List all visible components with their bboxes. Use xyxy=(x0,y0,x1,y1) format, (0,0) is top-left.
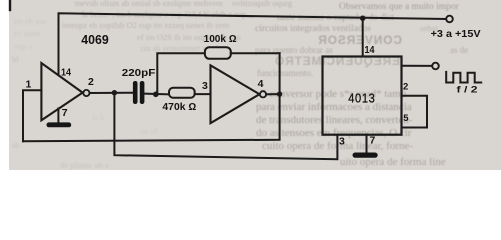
svg-text:funcionamento.: funcionamento. xyxy=(257,68,313,78)
svg-text:mevub olism ab omial sb ezolqm: mevub olism ab omial sb ezolqme mehvem xyxy=(75,0,223,8)
inverter 2 output bubble xyxy=(260,91,266,97)
svg-text:4013: 4013 xyxy=(348,91,375,106)
waveform icon: square wave f/2 xyxy=(446,72,481,83)
terminal +V: open circle xyxy=(446,16,453,23)
wire: inverter1 pin 7 to ground xyxy=(57,109,59,123)
terminal f/2: open circle xyxy=(432,63,439,70)
svg-text:7: 7 xyxy=(62,107,68,119)
svg-text:220pF: 220pF xyxy=(122,68,156,79)
node: junction inv2 output / feedback xyxy=(277,91,282,96)
svg-text:+3 a +15V: +3 a +15V xyxy=(431,28,481,40)
capacitor C1: 220pF plates xyxy=(133,81,145,104)
svg-text:sb: sb xyxy=(12,140,20,150)
resistor R2: 470k body xyxy=(169,88,195,98)
wire: inverter2 output pin 4 to feedback vertical xyxy=(266,93,280,95)
svg-text:5: 5 xyxy=(403,113,409,124)
ground (inverter 1) xyxy=(47,122,72,127)
svg-text:7: 7 xyxy=(370,135,376,147)
svg-text:14: 14 xyxy=(61,67,71,79)
wire: top supply rail from pin14 of 4069 to +V terminal xyxy=(59,13,447,74)
svg-text:de pfansc ob e: de pfansc ob e xyxy=(60,160,109,170)
wire: inverter1 input stub pin 1 xyxy=(23,90,41,141)
node: junction on inverter1 output xyxy=(112,90,117,95)
svg-text:no ol: no ol xyxy=(140,126,158,136)
border tick top-left xyxy=(9,0,11,10)
svg-text:100k Ω: 100k Ω xyxy=(204,34,237,45)
svg-text:f / 2: f / 2 xyxy=(457,85,478,95)
component value and pin labels xyxy=(26,28,481,148)
wire: bottom feedback (inv2 out to inv1 in) xyxy=(23,53,280,141)
svg-text:3: 3 xyxy=(202,80,208,92)
svg-text:4069: 4069 xyxy=(81,32,108,47)
svg-text:ovitizoqaib oqurg: ovitizoqaib oqurg xyxy=(232,0,293,8)
svg-text:2: 2 xyxy=(403,82,408,93)
svg-text:3: 3 xyxy=(339,136,345,148)
svg-text:as de: as de xyxy=(450,45,468,55)
svg-text:is b: is b xyxy=(92,112,104,122)
resistor R1: 100k body xyxy=(205,47,231,59)
svg-text:ec ziam: ec ziam xyxy=(14,28,41,38)
svg-text:eup o: eup o xyxy=(14,41,33,51)
paper background xyxy=(9,0,501,170)
wire: inverter1 output to capacitor xyxy=(90,92,133,94)
wire: 4013 Q output pin to f/2 terminal xyxy=(402,65,433,67)
svg-text:14: 14 xyxy=(365,44,375,56)
svg-text:imeupz eb zopifsb O2 eup im ez: imeupz eb zopifsb O2 eup im ezzeq oznet … xyxy=(62,20,230,30)
svg-text:4: 4 xyxy=(258,78,264,90)
op-amp U1a: 4069 inverter 1 triangle xyxy=(41,63,82,120)
wire: 100k to inverter2 output vertical xyxy=(231,52,280,54)
op-amp U1b: 4069 inverter 2 triangle xyxy=(211,65,260,123)
wire: capacitor to node A xyxy=(144,93,169,96)
svg-text:ld: ld xyxy=(12,54,19,64)
wire: 4013 pin 14 drop xyxy=(362,18,364,56)
svg-text:Observamos que a muito impor: Observamos que a muito impor xyxy=(339,2,460,12)
wire: node A up to 100k feedback rail xyxy=(157,53,205,94)
svg-text:1: 1 xyxy=(26,79,32,91)
wire: pin 2 to pin 5 loop xyxy=(402,96,428,128)
wire: 4013 pin 7 to ground xyxy=(366,135,368,153)
IC U2: 4013 body xyxy=(323,57,402,135)
svg-text:470k Ω: 470k Ω xyxy=(162,102,196,113)
wire: 470k to inverter 2 input pin 3 xyxy=(195,93,211,95)
wire: clock line from inv1 output down and right to 4013 pin 3 xyxy=(114,93,337,160)
svg-text:im eb zaz: im eb zaz xyxy=(14,16,47,26)
svg-text:2: 2 xyxy=(88,76,94,88)
node: junction on supply rail feeding 4013 pin 14 xyxy=(360,16,365,21)
inverter 1 output bubble xyxy=(83,90,89,96)
node A: junction after capacitor xyxy=(153,92,159,98)
ground (4013) xyxy=(353,153,378,158)
